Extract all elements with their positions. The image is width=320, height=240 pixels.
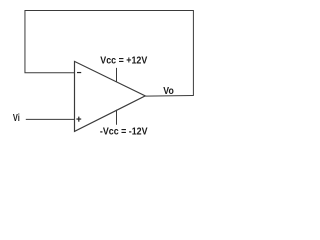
- svg-text:-Vcc = -12V: -Vcc = -12V: [100, 126, 148, 137]
- svg-text:Vcc = +12V: Vcc = +12V: [100, 55, 147, 66]
- svg-text:Vo: Vo: [163, 86, 174, 97]
- svg-text:Vi: Vi: [13, 113, 20, 124]
